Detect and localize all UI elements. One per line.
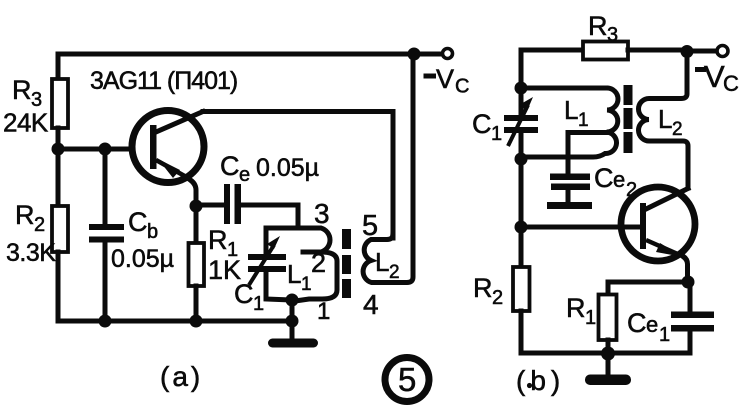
svg-text:1: 1 [585, 307, 596, 329]
svg-text:0.05µ: 0.05µ [111, 245, 174, 273]
resistor R3 (a) [52, 79, 68, 149]
node Cb-bottom [99, 315, 112, 328]
svg-text:3: 3 [314, 198, 330, 229]
svg-text:24K: 24K [3, 108, 49, 138]
label Ce2 [594, 163, 637, 201]
node R1-bottom [190, 315, 203, 328]
svg-text:R: R [15, 200, 35, 230]
label R2 (a) [15, 200, 45, 236]
resistor R1 (a) [189, 206, 205, 321]
label L2 (b) [658, 104, 683, 140]
wire tank top (b) [521, 86, 606, 91]
resistor R2 (a) [52, 149, 68, 321]
label -Vc (a) [424, 64, 470, 98]
node top-right junction (a) [408, 48, 421, 61]
node base-left junction [52, 143, 65, 156]
label L1 (b) [564, 95, 589, 131]
wire R3 to junction (b) [628, 48, 687, 53]
wire base (a) [58, 147, 130, 152]
svg-text:5: 5 [362, 210, 378, 242]
svg-text:4: 4 [363, 289, 379, 320]
svg-text:2: 2 [672, 119, 683, 140]
svg-text:2: 2 [389, 262, 400, 283]
svg-text:L: L [287, 259, 301, 289]
label C1 (b) [472, 109, 502, 145]
svg-text:C: C [627, 308, 647, 338]
inductor L2 (b) [639, 52, 689, 188]
resistor R2 (b) [513, 159, 530, 353]
inductor L1 (a) [295, 228, 337, 301]
svg-text:2: 2 [492, 287, 503, 309]
svg-text:(b): (b) [516, 365, 565, 396]
node tank top (b) [515, 82, 528, 95]
svg-text:1: 1 [491, 123, 502, 145]
transformer core (a) [342, 229, 351, 298]
svg-text:1: 1 [301, 274, 312, 295]
label L1 (a) [287, 259, 312, 295]
label -Vc (b) [695, 59, 739, 96]
transistor Q1 3AG11 (П401) [132, 111, 204, 207]
svg-text:5: 5 [398, 361, 416, 398]
svg-text:R: R [588, 11, 608, 41]
svg-text:e: e [239, 164, 250, 186]
svg-text:3: 3 [607, 24, 618, 46]
svg-text:2: 2 [311, 248, 326, 278]
node base junction (b) [515, 221, 528, 234]
transistor Q2 (b) [621, 187, 695, 282]
label L2 (a) [375, 247, 400, 283]
resistor R3 (b) [583, 42, 628, 60]
node top junction (b) [681, 45, 694, 58]
svg-text:R: R [473, 273, 493, 303]
svg-text:R: R [208, 225, 228, 255]
svg-text:C: C [594, 163, 614, 193]
label R3 (b) [588, 11, 618, 46]
wire tank top (a) [266, 226, 298, 231]
wire tank bottom to rail [290, 300, 295, 321]
transformer core (b) [624, 85, 633, 153]
capacitor Cb (a) [89, 149, 124, 321]
wire bottom rail (a) [58, 319, 292, 324]
svg-text:R: R [566, 293, 586, 323]
label R3 [12, 75, 42, 111]
svg-text:C: C [234, 279, 254, 309]
label R2 (b) [473, 273, 503, 309]
label Ce 0.05u [220, 151, 319, 186]
node emitter junction (b) [682, 276, 695, 289]
inductor L1 (b) [521, 88, 618, 157]
svg-text:C: C [220, 151, 240, 181]
capacitor Ce (a) [196, 184, 298, 228]
label C1 (a) [234, 279, 264, 315]
svg-text:1: 1 [317, 298, 330, 325]
svg-text:L: L [564, 95, 578, 125]
svg-text:3AG11 (П401): 3AG11 (П401) [90, 67, 237, 95]
node emitter junction (a) [190, 200, 203, 213]
svg-text:C: C [455, 76, 469, 98]
svg-text:V: V [704, 59, 725, 94]
label R1 (a) [208, 225, 238, 261]
wire top rail (b) [521, 50, 583, 88]
svg-text:C: C [472, 109, 492, 139]
svg-text:(a): (a) [160, 361, 203, 392]
wire to terminal (b) [687, 49, 716, 54]
wire base (b) [521, 225, 641, 230]
terminal -Vc (b) [717, 46, 728, 57]
label Cb [128, 207, 158, 243]
capacitor C1 variable (a) [248, 228, 292, 300]
svg-text:b: b [147, 221, 158, 243]
svg-text:e: e [646, 312, 658, 337]
wire to -Vc terminal (a) [414, 52, 442, 57]
node ground rail (a) [286, 315, 299, 328]
figure number 5 in circle [385, 358, 429, 402]
svg-text:1: 1 [659, 324, 670, 346]
svg-text:1: 1 [578, 110, 589, 131]
svg-text:V: V [436, 64, 454, 94]
capacitor C1 variable (b) [504, 88, 538, 159]
svg-text:L: L [375, 247, 389, 277]
svg-text:0.05µ: 0.05µ [256, 154, 319, 182]
svg-text:3.3K: 3.3K [6, 239, 56, 267]
node Cb-top junction [99, 143, 112, 156]
svg-text:R: R [12, 75, 32, 105]
svg-text:e: e [613, 167, 625, 192]
svg-text:L: L [658, 104, 672, 134]
wire bottom rail (b) [521, 351, 690, 356]
ground (a) [268, 321, 318, 348]
inductor L2 (a) [363, 54, 413, 283]
wire collector (a) [203, 112, 393, 239]
svg-text:1: 1 [253, 293, 264, 315]
wire emitter to R1 (b) [608, 282, 688, 294]
label Ce1 [627, 308, 670, 346]
svg-text:C: C [723, 71, 739, 96]
svg-text:C: C [128, 207, 148, 237]
capacitor Ce1 (b) [671, 282, 714, 353]
svg-text:2: 2 [34, 214, 45, 236]
node ground (b) [601, 347, 615, 361]
capacitor Ce2 (b) [547, 133, 592, 209]
node tank bottom (b) [515, 153, 528, 166]
node tank bottom (a) [286, 294, 299, 307]
wire top -Vc rail (a) [58, 54, 414, 80]
terminal -Vc (a) [443, 49, 453, 59]
label R1 (b) [566, 293, 596, 329]
resistor R1 (b) [599, 295, 617, 354]
ground (b) [585, 353, 631, 385]
